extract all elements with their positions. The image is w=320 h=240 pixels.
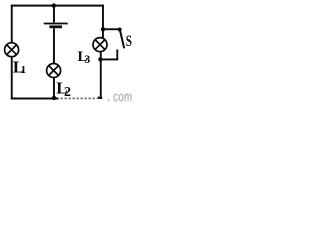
wire bottom dashed remnant (watermark-faded) (61, 97, 98, 99)
watermark .com (107, 88, 132, 105)
lamp L3 (93, 38, 107, 52)
switch S blade (120, 30, 124, 48)
label L1 (13, 58, 26, 77)
svg-text:2: 2 (64, 85, 71, 100)
svg-text:S: S (126, 32, 132, 49)
battery short plate (49, 25, 62, 28)
wire left vertical upper (11, 5, 13, 42)
wire bottom horizontal (solid part) (11, 98, 59, 100)
svg-text:.: . (107, 88, 110, 102)
wire left vertical lower (11, 57, 13, 99)
wire battery top lead (53, 6, 55, 23)
label L3 (78, 49, 91, 66)
wire switch bottom contact (116, 49, 118, 59)
wire L3 bottom lead (100, 52, 102, 99)
node L2 bottom junction (52, 96, 56, 100)
lamp L1 (5, 43, 19, 57)
wire top horizontal (11, 5, 104, 7)
wire right vertical from top (102, 5, 104, 30)
label L2 (56, 79, 71, 100)
wire switch rail horizontal (103, 28, 120, 30)
wire L3 top lead (102, 29, 104, 38)
svg-text:com: com (113, 88, 132, 102)
wire battery bottom lead (53, 28, 55, 63)
node L3/S bottom junction (98, 57, 102, 61)
svg-text:1: 1 (21, 64, 27, 76)
node right branch junction (101, 27, 105, 31)
battery long plate (44, 23, 68, 25)
wire bottom-right connector horizontal (100, 59, 118, 61)
node switch top contact (118, 28, 122, 32)
node bottom end of L3 branch (98, 97, 103, 99)
svg-text:3: 3 (84, 52, 90, 66)
lamp L2 (47, 64, 61, 78)
node battery top junction (52, 3, 56, 7)
wire L2 bottom lead (53, 78, 55, 99)
